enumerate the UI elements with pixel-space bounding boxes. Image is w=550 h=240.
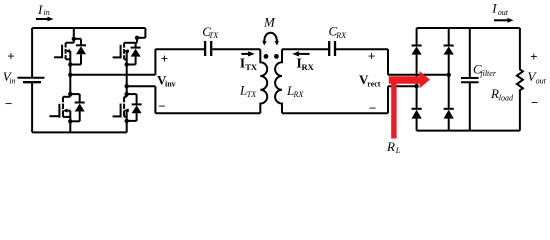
- svg-text:load: load: [499, 93, 514, 102]
- wire TX loop top right: [212, 48, 260, 50]
- capacitor Cfilter: [461, 28, 479, 131]
- IRX label: [296, 57, 314, 72]
- svg-text:TX: TX: [245, 62, 258, 72]
- diode D3: [412, 109, 422, 119]
- wire RX loop bottom: [282, 112, 388, 114]
- wire RX loop top right: [336, 48, 388, 50]
- Vrect label: [359, 72, 381, 88]
- diode D1: [412, 46, 422, 55]
- Iout arrow: [494, 18, 514, 23]
- wire inverter output upper (left leg midpoint to TX loop): [70, 74, 155, 76]
- inductor LRX: [275, 49, 282, 113]
- wire inverter output lower (right leg midpoint to TX loop): [127, 85, 156, 87]
- svg-text:R: R: [386, 139, 395, 154]
- LRX label: [286, 83, 304, 99]
- inductor LTX: [260, 49, 267, 113]
- CTX label: [202, 24, 219, 40]
- svg-text:rect: rect: [367, 80, 381, 89]
- transistor Q2 (top-right MOSFET with body diode): [113, 28, 146, 67]
- node junction left column mid: [414, 84, 418, 88]
- Cfilter label: [473, 62, 497, 78]
- transistor Q1 (top-left MOSFET with body diode): [54, 28, 86, 67]
- capacitor CTX: [205, 41, 211, 56]
- wire rectifier input lower (Vrect to left diode leg): [388, 85, 417, 87]
- RL label: [386, 139, 401, 155]
- svg-text:R: R: [490, 86, 499, 101]
- svg-text:TX: TX: [209, 31, 219, 40]
- ITX arrow: [241, 51, 255, 56]
- wire TX loop left edge lower: [154, 86, 156, 113]
- svg-text:in: in: [9, 76, 15, 85]
- wire top rail inverter: [32, 27, 145, 29]
- capacitor CRX: [329, 41, 335, 56]
- LTX label: [239, 83, 257, 99]
- wire TX loop top left: [155, 48, 204, 50]
- svg-text:I: I: [37, 2, 43, 17]
- resistor Rload: [517, 28, 523, 131]
- svg-text:M: M: [263, 14, 276, 29]
- svg-text:TX: TX: [247, 90, 257, 99]
- svg-text:+: +: [7, 48, 14, 63]
- IRX arrow: [292, 51, 309, 56]
- svg-text:+: +: [161, 51, 168, 66]
- CRX label: [329, 24, 348, 40]
- svg-text:RX: RX: [302, 62, 315, 72]
- Iout label: [491, 1, 509, 17]
- svg-text:RX: RX: [293, 90, 305, 99]
- ITX label: [240, 57, 258, 72]
- transistor Q3 (bottom-left MOSFET with body diode): [49, 92, 84, 132]
- svg-text:−: −: [531, 95, 538, 110]
- svg-text:I: I: [491, 1, 497, 16]
- svg-text:+: +: [368, 48, 375, 63]
- wire bottom rail inverter: [32, 131, 127, 133]
- svg-text:filter: filter: [480, 69, 496, 78]
- Vout label: [528, 69, 547, 85]
- svg-text:in: in: [44, 8, 50, 17]
- wire TX loop bottom: [155, 112, 260, 114]
- RL equivalent resistance red arrow: [389, 71, 430, 139]
- node junction right leg mid: [125, 84, 129, 88]
- wire rectifier input upper (Vrect to right diode leg): [388, 74, 449, 76]
- wire bottom rail output: [417, 130, 520, 132]
- battery Vin: [18, 28, 45, 132]
- svg-text:out: out: [498, 8, 509, 17]
- diode D2: [444, 46, 454, 55]
- svg-text:RX: RX: [335, 31, 347, 40]
- svg-text:out: out: [536, 76, 547, 85]
- diode D4: [444, 109, 454, 119]
- svg-text:L: L: [395, 146, 401, 155]
- wire RX loop right edge upper: [387, 49, 389, 75]
- node junction right column mid: [447, 73, 451, 77]
- svg-text:inv: inv: [165, 80, 176, 89]
- wire left leg: [69, 65, 71, 95]
- svg-text:+: +: [530, 49, 537, 64]
- wire TX loop left edge upper: [154, 49, 156, 75]
- svg-text:−: −: [5, 96, 12, 111]
- transistor Q4 (bottom-right MOSFET with body diode): [113, 92, 142, 132]
- Vin label: [3, 69, 16, 85]
- Vinv label: [157, 72, 176, 88]
- Iin arrow: [36, 17, 54, 22]
- svg-text:−: −: [369, 100, 376, 115]
- mutual coupling arc M: [262, 33, 279, 46]
- node polarity dot LTX: [264, 54, 269, 59]
- node polarity dot LRX: [274, 54, 279, 59]
- Iin current label: [37, 2, 50, 17]
- wire right leg: [126, 65, 128, 95]
- svg-text:−: −: [158, 99, 165, 114]
- wire rectifier right column: [448, 28, 450, 131]
- wire RX loop top left: [282, 48, 328, 50]
- wire top rail output: [417, 27, 520, 29]
- Rload label: [490, 86, 514, 102]
- wire RX loop right edge lower: [387, 86, 389, 113]
- wire rectifier left column: [416, 28, 418, 131]
- node junction left leg mid: [68, 73, 72, 77]
